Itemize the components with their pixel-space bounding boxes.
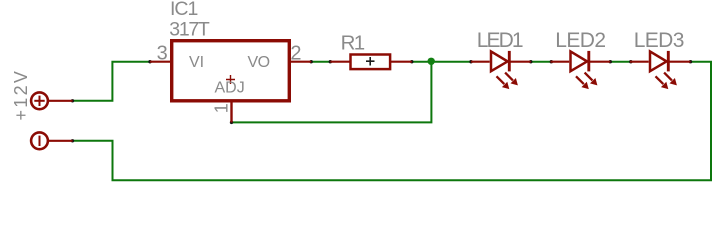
IC1 box [172,41,290,101]
wire R1 to junction node [412,61,432,63]
LED3 cathode lead [669,61,691,63]
svg-text:3: 3 [157,42,168,64]
LED2 cathode lead [589,61,610,63]
svg-text:LED1: LED1 [477,29,523,52]
connection point LED1 anode [469,60,472,63]
wire ADJ net: IC pin 1 down-right-up to junction [232,62,432,123]
connection point LED2 cathode [609,60,612,63]
LED3 [630,29,691,89]
LED3 cathode bar [667,51,670,72]
R1 right lead [391,61,412,63]
svg-text:1: 1 [212,103,232,113]
connection point +12V stub [71,99,74,102]
svg-text:R1: R1 [341,31,365,54]
LED1 anode lead [471,61,490,63]
connection point LED3 anode [629,60,632,63]
connection point LED3 cathode [689,60,692,63]
LED1 cathode bar [508,51,511,72]
LED3 emission arrow b [664,73,677,86]
svg-text:VI: VI [189,54,204,71]
connection point pin3 [148,60,151,63]
resistor R1 [330,31,412,69]
LED2 anode lead [551,61,570,63]
LED2 emission arrow b [585,73,598,86]
connection point R1 right [410,60,413,63]
wire IC pin 2 (VO) to R1 [311,61,331,63]
LED1 emission arrow b [505,73,518,86]
pin 3 stub [150,61,171,63]
junction dot [428,58,435,65]
svg-text:ADJ: ADJ [215,80,245,97]
IC origin cross [226,75,235,84]
pin 2 stub [290,61,311,63]
LED2 emission arrow a [576,76,589,89]
LED3 anode lead [630,61,649,63]
svg-text:317T: 317T [169,18,210,40]
op-amp-style regulator IC1 LM317 body [150,0,311,122]
pin 1 stub (ADJ) [230,101,232,122]
LED1 triangle [491,51,508,71]
wire N$1 +12V terminal to IC pin 3 [72,62,150,101]
R1 body [351,55,391,70]
LED1 cathode lead [510,61,531,63]
connection point pin2 [310,60,313,63]
R1 origin cross [366,57,375,66]
wire junction to LED1 anode [431,61,471,63]
LED1 emission arrow a [497,76,510,89]
connection point R1 left [329,60,332,63]
wire LED1 cathode to LED2 anode [531,61,552,63]
wire LED2 cathode to LED3 anode [610,61,631,63]
LED2 triangle [571,51,588,71]
LED2 [551,29,611,89]
svg-text:IC1: IC1 [170,0,198,20]
connection point LED2 anode [550,60,553,63]
LED2 cathode bar [587,51,590,72]
LED3 emission arrow a [656,76,669,89]
svg-text:+12V: +12V [11,69,31,121]
svg-text:VO: VO [248,54,270,71]
svg-text:2: 2 [290,43,301,65]
svg-text:LED3: LED3 [634,29,684,52]
supply terminal - (minus pad) [31,132,72,149]
connection point GND stub [71,139,74,142]
R1 left lead [330,61,350,63]
LED3 triangle [650,51,667,71]
connection point ADJ [230,121,233,124]
svg-text:LED2: LED2 [555,29,605,52]
supply terminal + (plus pad) [31,92,72,109]
connection point LED1 cathode [529,60,532,63]
LED1 [471,29,531,89]
wire GND net: minus terminal, bottom rail, right rail up to LED3 cathode [72,62,711,181]
